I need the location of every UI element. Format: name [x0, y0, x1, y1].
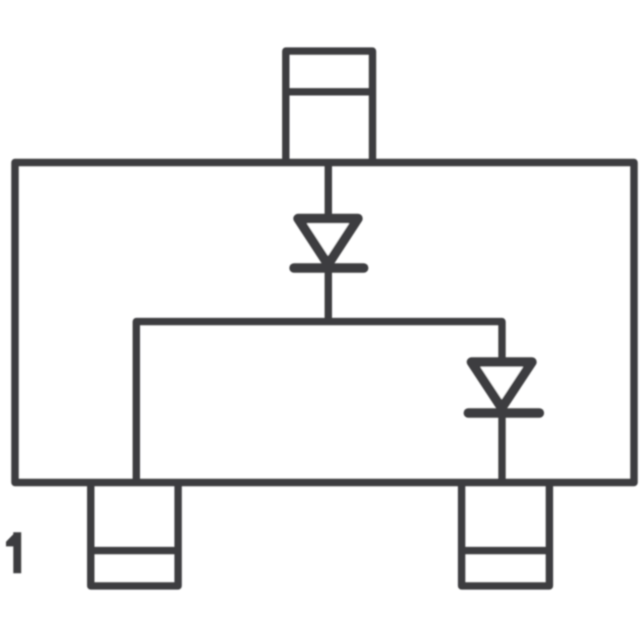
diode D1 cathode bar [294, 263, 364, 272]
pin 2 lead (bottom right) [462, 479, 550, 586]
diode D1 triangle (anode) [298, 219, 358, 265]
pin 1 lead (bottom left) [91, 479, 178, 586]
pin 3 lead (top) [286, 51, 373, 166]
diode D2 cathode bar [468, 408, 539, 417]
node A bus: wire to pin 1 and to diode D2 anode [136, 322, 502, 483]
pin 3 solder-foot divider [286, 88, 373, 95]
pin 1 number label [6, 532, 21, 573]
diode D2 triangle (anode) [471, 362, 532, 408]
package body outline [15, 163, 634, 483]
wire: pin 3 to diode D1 anode [325, 160, 332, 222]
wire: diode D2 cathode to pin 2 [498, 404, 505, 483]
wire: diode D1 cathode to node A [325, 260, 332, 322]
pin 2 solder-foot divider [462, 547, 550, 554]
pin 1 solder-foot divider [91, 547, 178, 554]
